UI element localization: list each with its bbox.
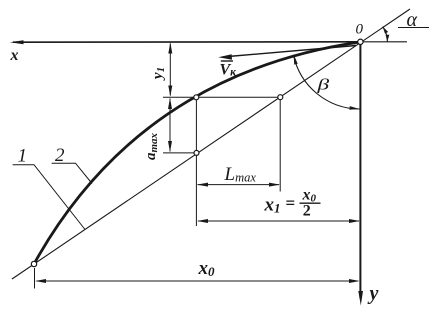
svg-text:1: 1 xyxy=(18,146,28,167)
vertical line at x1 (x=196) xyxy=(195,98,197,226)
alpha arc arrowhead bottom xyxy=(386,35,390,42)
alpha leader line xyxy=(398,27,429,29)
V_k arrowhead xyxy=(218,54,232,60)
circle node 2 on chord xyxy=(194,150,199,155)
x0 dimension line xyxy=(37,280,359,282)
y1 arrow up xyxy=(168,42,172,53)
alpha arc arrowhead top xyxy=(383,27,388,34)
svg-text:x: x xyxy=(10,47,19,64)
beta arc arrowhead top xyxy=(294,55,298,65)
svg-text:2: 2 xyxy=(55,145,65,166)
y-axis xyxy=(359,43,361,298)
L_max arrow right xyxy=(269,183,280,187)
trajectory curve 2 xyxy=(34,42,360,264)
horizontal line through circles 1 and 3 xyxy=(163,96,280,98)
y1 arrow down xyxy=(168,86,172,97)
svg-text:α: α xyxy=(407,9,418,31)
label Vk overbar xyxy=(221,60,233,62)
x0 arrow left xyxy=(35,279,46,283)
x0 extension line below start circle xyxy=(34,268,36,289)
svg-text:y: y xyxy=(368,283,379,305)
beta arc arrowhead bottom xyxy=(349,106,359,110)
leader line for label 1 xyxy=(13,165,85,230)
y1 dimension line xyxy=(169,44,171,96)
x1 arrow right xyxy=(349,219,360,223)
a_max arrow up xyxy=(168,98,172,109)
a_max dimension line xyxy=(169,99,171,152)
L_max dimension line xyxy=(198,184,280,186)
V_k vector xyxy=(228,46,356,57)
svg-text:=: = xyxy=(286,194,296,213)
x-axis xyxy=(13,41,360,43)
beta arc xyxy=(294,55,360,109)
circle at start of curve xyxy=(31,261,36,266)
leader line for label 2 xyxy=(52,163,92,183)
circle node 1 on curve xyxy=(194,95,199,100)
x0 arrow right xyxy=(349,279,360,283)
circle node 3 on chord xyxy=(278,95,283,100)
x-axis extension right of origin xyxy=(363,41,407,43)
alpha arc xyxy=(383,27,388,42)
svg-text:0: 0 xyxy=(356,22,364,38)
y-axis arrowhead xyxy=(358,291,363,306)
svg-text:2: 2 xyxy=(303,203,311,220)
origin circle O xyxy=(358,39,363,44)
x-axis arrowhead xyxy=(10,40,24,44)
fraction bar xyxy=(300,202,321,204)
x1 arrow left xyxy=(197,219,208,223)
x1 dimension line xyxy=(198,220,359,222)
horizontal line through circle 2 xyxy=(163,152,199,154)
svg-text:β: β xyxy=(316,76,329,93)
L_max arrow left xyxy=(197,183,208,187)
vertical line at x=280 xyxy=(279,98,281,192)
a_max arrow down xyxy=(168,141,172,152)
diagonal line (chord 1) xyxy=(12,9,410,279)
